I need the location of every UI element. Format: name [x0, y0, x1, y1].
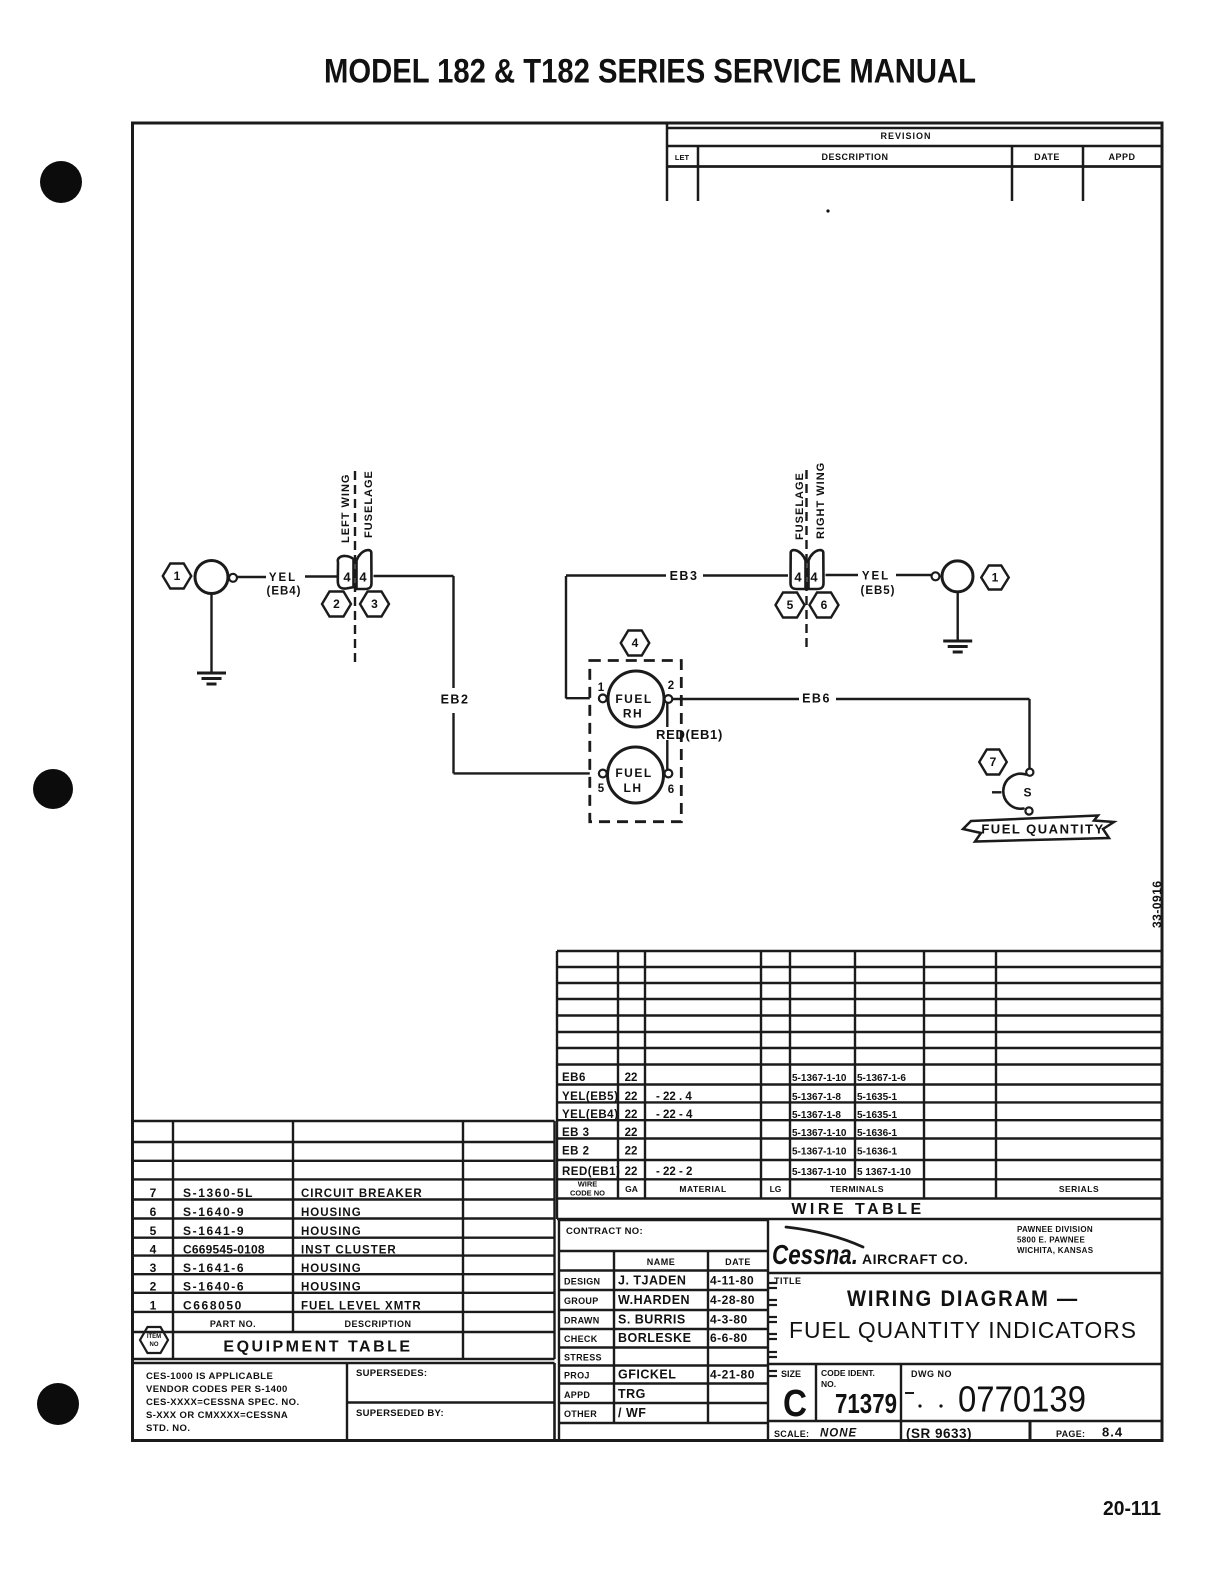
svg-text:STD. NO.: STD. NO. — [146, 1423, 190, 1434]
svg-text:MODEL 182 & T182 SERIES SERVIC: MODEL 182 & T182 SERIES SERVICE MANUAL — [324, 53, 976, 91]
svg-text:4: 4 — [794, 570, 802, 585]
svg-text:CES-XXXX=CESSNA SPEC. NO.: CES-XXXX=CESSNA SPEC. NO. — [146, 1397, 300, 1408]
svg-text:5-1367-1-10: 5-1367-1-10 — [792, 1167, 847, 1178]
svg-text:5: 5 — [150, 1224, 157, 1238]
svg-text:CES-1000 IS APPLICABLE: CES-1000 IS APPLICABLE — [146, 1371, 273, 1382]
svg-text:ITEM: ITEM — [147, 1334, 161, 1340]
svg-text:LH: LH — [624, 781, 643, 795]
svg-text:22: 22 — [625, 1091, 638, 1103]
svg-text:22: 22 — [625, 1072, 638, 1084]
svg-text:RIGHT WING: RIGHT WING — [815, 462, 827, 539]
svg-text:2: 2 — [668, 680, 674, 692]
svg-text:S-1641-6: S-1641-6 — [183, 1261, 245, 1275]
svg-text:FUEL QUANTITY: FUEL QUANTITY — [981, 822, 1104, 837]
svg-text:3: 3 — [150, 1261, 157, 1275]
svg-text:TERMINALS: TERMINALS — [830, 1184, 884, 1194]
svg-text:4: 4 — [150, 1243, 157, 1257]
svg-text:5-1367-1-10: 5-1367-1-10 — [792, 1147, 847, 1158]
svg-text:S-XXX OR CMXXXX=CESSNA: S-XXX OR CMXXXX=CESSNA — [146, 1410, 288, 1421]
svg-text:CONTRACT NO:: CONTRACT NO: — [566, 1226, 643, 1237]
svg-text:/ WF: / WF — [618, 1406, 646, 1420]
svg-text:6: 6 — [668, 784, 674, 796]
svg-text:EB2: EB2 — [441, 693, 470, 707]
svg-text:EB3: EB3 — [670, 569, 699, 583]
svg-text:RH: RH — [623, 707, 643, 721]
svg-text:5-1635-1: 5-1635-1 — [857, 1092, 897, 1103]
svg-text:TITLE: TITLE — [774, 1276, 802, 1286]
svg-text:(EB4): (EB4) — [266, 586, 301, 598]
svg-text:S. BURRIS: S. BURRIS — [618, 1313, 686, 1327]
svg-text:HOUSING: HOUSING — [301, 1226, 362, 1238]
svg-text:S-1640-6: S-1640-6 — [183, 1280, 245, 1294]
svg-text:4: 4 — [343, 570, 351, 585]
svg-text:4-3-80: 4-3-80 — [710, 1313, 748, 1327]
svg-text:7: 7 — [150, 1186, 157, 1200]
svg-text:REVISION: REVISION — [880, 131, 931, 141]
svg-text:5-1367-1-10: 5-1367-1-10 — [792, 1073, 847, 1084]
svg-text:5-1636-1: 5-1636-1 — [857, 1128, 897, 1139]
svg-text:S-1641-9: S-1641-9 — [183, 1224, 245, 1238]
svg-text:5: 5 — [787, 598, 794, 612]
svg-text:4: 4 — [810, 570, 818, 585]
svg-text:EB 3: EB 3 — [562, 1127, 590, 1139]
svg-text:GROUP: GROUP — [564, 1296, 599, 1306]
svg-text:22: 22 — [625, 1109, 638, 1121]
svg-text:2: 2 — [333, 597, 340, 611]
svg-text:AIRCRAFT CO.: AIRCRAFT CO. — [862, 1251, 968, 1267]
svg-text:GFICKEL: GFICKEL — [618, 1368, 676, 1382]
svg-text:EB6: EB6 — [562, 1072, 586, 1084]
svg-text:5-1636-1: 5-1636-1 — [857, 1147, 897, 1158]
svg-text:HOUSING: HOUSING — [301, 1263, 362, 1275]
svg-text:VENDOR CODES PER S-1400: VENDOR CODES PER S-1400 — [146, 1384, 288, 1395]
svg-text:1: 1 — [598, 682, 605, 694]
svg-text:- 22 - 2: - 22 - 2 — [656, 1166, 692, 1178]
svg-text:WIRING DIAGRAM —: WIRING DIAGRAM — — [847, 1286, 1079, 1311]
svg-text:DRAWN: DRAWN — [564, 1316, 600, 1326]
svg-text:(EB5): (EB5) — [860, 585, 895, 597]
svg-text:FUEL: FUEL — [615, 692, 652, 706]
svg-text:5-1367-1-8: 5-1367-1-8 — [792, 1110, 841, 1121]
svg-text:4-28-80: 4-28-80 — [710, 1293, 755, 1307]
svg-text:(SR 9633): (SR 9633) — [906, 1426, 972, 1441]
svg-text:4: 4 — [359, 570, 367, 585]
svg-text:NAME: NAME — [647, 1257, 676, 1267]
svg-text:RED(EB1): RED(EB1) — [562, 1166, 620, 1178]
svg-text:1: 1 — [174, 569, 181, 583]
svg-text:YEL: YEL — [269, 572, 297, 584]
svg-text:CODE IDENT.: CODE IDENT. — [821, 1368, 875, 1378]
svg-text:INST CLUSTER: INST CLUSTER — [301, 1245, 397, 1257]
svg-text:DATE: DATE — [725, 1257, 751, 1267]
svg-text:6: 6 — [150, 1205, 157, 1219]
svg-text:OTHER: OTHER — [564, 1409, 597, 1419]
svg-text:CIRCUIT BREAKER: CIRCUIT BREAKER — [301, 1188, 423, 1200]
svg-text:MATERIAL: MATERIAL — [679, 1184, 726, 1194]
svg-text:EB 2: EB 2 — [562, 1146, 590, 1158]
svg-text:LET: LET — [675, 153, 690, 162]
svg-text:22: 22 — [625, 1166, 638, 1178]
svg-text:EB6: EB6 — [802, 692, 831, 706]
svg-text:WIRE TABLE: WIRE TABLE — [791, 1201, 924, 1218]
svg-text:S-1640-9: S-1640-9 — [183, 1205, 245, 1219]
svg-text:CODE NO: CODE NO — [570, 1189, 605, 1198]
svg-text:STRESS: STRESS — [564, 1353, 602, 1363]
svg-text:71379: 71379 — [835, 1388, 897, 1419]
svg-text:GA: GA — [625, 1184, 638, 1194]
svg-text:Cessna.: Cessna. — [772, 1239, 858, 1270]
svg-text:WIRE: WIRE — [578, 1180, 598, 1189]
svg-text:FUEL QUANTITY INDICATORS: FUEL QUANTITY INDICATORS — [789, 1317, 1137, 1343]
svg-text:DESCRIPTION: DESCRIPTION — [344, 1319, 411, 1329]
svg-text:C668050: C668050 — [183, 1299, 243, 1313]
svg-text:J. TJADEN: J. TJADEN — [618, 1274, 686, 1288]
svg-text:YEL(EB5): YEL(EB5) — [562, 1091, 618, 1103]
svg-text:4-21-80: 4-21-80 — [710, 1368, 755, 1382]
svg-text:1: 1 — [150, 1299, 157, 1313]
svg-text:NO.: NO. — [821, 1379, 836, 1389]
svg-text:EQUIPMENT TABLE: EQUIPMENT TABLE — [223, 1339, 412, 1356]
svg-text:5800 E. PAWNEE: 5800 E. PAWNEE — [1017, 1236, 1085, 1245]
svg-text:NO: NO — [150, 1342, 159, 1348]
svg-text:4: 4 — [632, 636, 639, 650]
svg-text:W.HARDEN: W.HARDEN — [618, 1293, 690, 1307]
svg-text:APPD: APPD — [564, 1390, 590, 1400]
svg-text:FUEL: FUEL — [615, 766, 652, 780]
svg-text:RED(EB1): RED(EB1) — [656, 727, 723, 742]
svg-text:1: 1 — [992, 571, 999, 585]
svg-text:SERIALS: SERIALS — [1059, 1184, 1099, 1194]
svg-text:22: 22 — [625, 1127, 638, 1139]
svg-text:YEL: YEL — [862, 571, 890, 583]
svg-text:C669545-0108: C669545-0108 — [183, 1243, 265, 1257]
svg-text:YEL(EB4): YEL(EB4) — [562, 1109, 618, 1121]
svg-text:3: 3 — [371, 597, 378, 611]
svg-text:5-1367-1-8: 5-1367-1-8 — [792, 1092, 841, 1103]
svg-text:6-6-80: 6-6-80 — [710, 1331, 748, 1345]
svg-text:4-11-80: 4-11-80 — [710, 1274, 754, 1288]
svg-text:NONE: NONE — [820, 1428, 857, 1440]
svg-text:- 22 - 4: - 22 - 4 — [656, 1109, 693, 1121]
svg-text:5-1367-1-6: 5-1367-1-6 — [857, 1073, 906, 1084]
svg-text:C: C — [783, 1383, 807, 1425]
svg-text:DATE: DATE — [1034, 152, 1060, 162]
svg-text:SIZE: SIZE — [781, 1369, 801, 1379]
svg-text:20-111: 20-111 — [1103, 1498, 1161, 1520]
svg-text:33-0916: 33-0916 — [1150, 880, 1164, 928]
svg-text:SUPERSEDED BY:: SUPERSEDED BY: — [356, 1408, 444, 1419]
svg-text:HOUSING: HOUSING — [301, 1282, 362, 1294]
svg-text:22: 22 — [625, 1146, 638, 1158]
svg-text:6: 6 — [821, 598, 828, 612]
svg-text:- 22 . 4: - 22 . 4 — [656, 1091, 692, 1103]
svg-text:8.4: 8.4 — [1102, 1425, 1123, 1440]
svg-text:FUSELAGE: FUSELAGE — [794, 472, 806, 540]
svg-text:S-1360-5L: S-1360-5L — [183, 1186, 254, 1200]
svg-text:DWG NO: DWG NO — [911, 1369, 952, 1379]
svg-text:0770139: 0770139 — [958, 1379, 1086, 1420]
svg-text:7: 7 — [990, 755, 997, 769]
svg-text:PROJ: PROJ — [564, 1371, 590, 1381]
svg-text:5-1367-1-10: 5-1367-1-10 — [792, 1128, 847, 1139]
svg-text:WICHITA, KANSAS: WICHITA, KANSAS — [1017, 1246, 1094, 1255]
svg-text:CHECK: CHECK — [564, 1334, 598, 1344]
svg-text:PAWNEE DIVISION: PAWNEE DIVISION — [1017, 1225, 1093, 1234]
svg-text:SCALE:: SCALE: — [774, 1429, 809, 1439]
svg-text:5: 5 — [598, 783, 605, 795]
svg-text:FUSELAGE: FUSELAGE — [363, 470, 375, 538]
svg-text:LG: LG — [770, 1184, 782, 1194]
svg-text:BORLESKE: BORLESKE — [618, 1331, 691, 1345]
svg-text:2: 2 — [150, 1280, 157, 1294]
svg-text:PAGE:: PAGE: — [1056, 1429, 1085, 1439]
svg-text:FUEL LEVEL XMTR: FUEL LEVEL XMTR — [301, 1301, 422, 1313]
svg-text:PART NO.: PART NO. — [210, 1319, 256, 1329]
svg-text:LEFT WING: LEFT WING — [340, 474, 352, 544]
svg-text:APPD: APPD — [1108, 152, 1135, 162]
svg-text:HOUSING: HOUSING — [301, 1207, 362, 1219]
svg-text:DESCRIPTION: DESCRIPTION — [821, 152, 888, 162]
svg-text:5-1635-1: 5-1635-1 — [857, 1110, 897, 1121]
svg-text:S: S — [1023, 786, 1031, 800]
svg-text:DESIGN: DESIGN — [564, 1277, 600, 1287]
svg-text:5 1367-1-10: 5 1367-1-10 — [857, 1167, 911, 1178]
svg-text:SUPERSEDES:: SUPERSEDES: — [356, 1368, 427, 1379]
svg-text:TRG: TRG — [618, 1387, 646, 1401]
